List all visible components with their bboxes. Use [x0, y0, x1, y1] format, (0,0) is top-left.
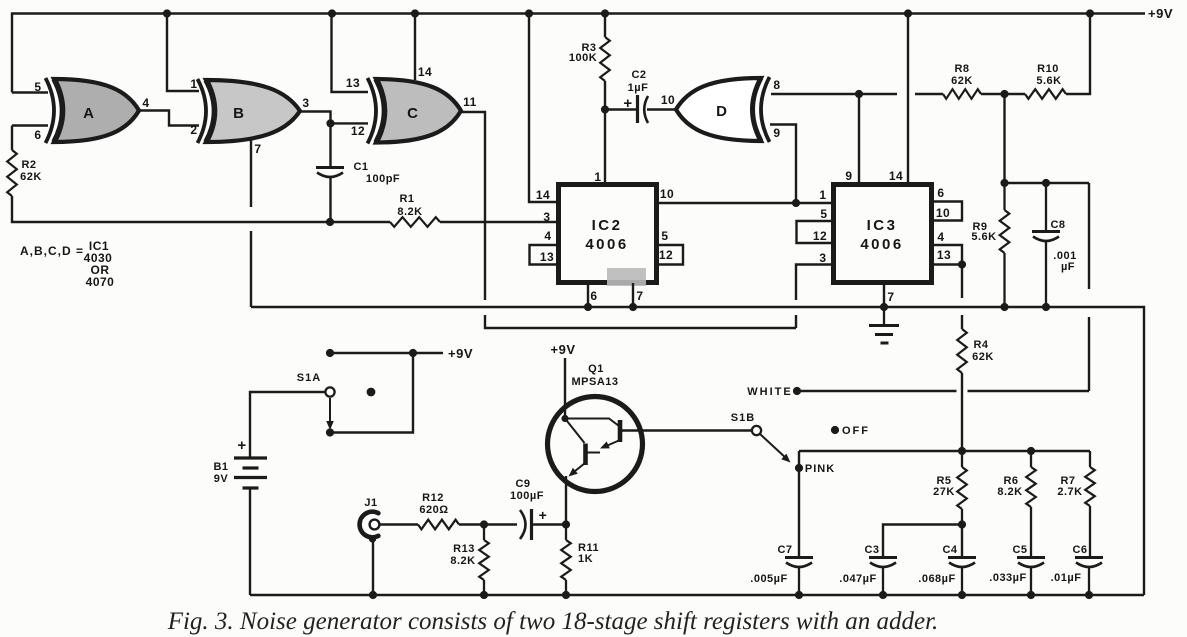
resistor R7 [1089, 451, 1091, 467]
wire R3 to node [604, 81, 606, 110]
xor gate B [206, 80, 300, 142]
svg-text:R1: R1 [399, 193, 414, 205]
xor gate A [54, 79, 139, 142]
svg-text:IC3: IC3 [867, 217, 898, 234]
svg-text:13: 13 [540, 250, 554, 264]
svg-text:62K: 62K [951, 75, 973, 87]
svg-text:6: 6 [590, 289, 597, 303]
svg-text:R13: R13 [453, 543, 475, 555]
node C8 top [1042, 179, 1050, 187]
svg-text:.033µF: .033µF [989, 572, 1026, 584]
wire white node horizontal [1005, 182, 1090, 184]
svg-text:MPSA13: MPSA13 [571, 376, 618, 388]
wire C2 to gate D [647, 108, 676, 110]
svg-text:620Ω: 620Ω [419, 504, 448, 516]
node S1A lower contact [326, 428, 334, 436]
junction top bus [328, 9, 336, 17]
svg-text:9V: 9V [214, 473, 229, 485]
wire R2 to R1 line [12, 196, 390, 222]
node IC3 pin 7 gnd [880, 303, 888, 311]
node IC2pin10 IC3pin1 [792, 199, 800, 207]
svg-text:14: 14 [889, 169, 903, 183]
svg-text:.005µF: .005µF [750, 573, 787, 585]
svg-text:IC2: IC2 [592, 217, 623, 234]
svg-text:5.6K: 5.6K [1036, 75, 1061, 87]
node R11 top [562, 520, 570, 528]
wire gate C output 11 [461, 112, 485, 300]
svg-text:10: 10 [661, 93, 675, 107]
wire R4 upper [961, 265, 963, 299]
svg-text:27K: 27K [933, 486, 955, 498]
wire battery to S1A [250, 392, 325, 458]
svg-text:4: 4 [142, 96, 149, 110]
capacitor C6 [1075, 556, 1103, 559]
svg-text:14: 14 [418, 65, 432, 79]
wire pink bus [799, 450, 1090, 452]
wire IC3 pin 14 [907, 14, 909, 185]
svg-text:C2: C2 [631, 69, 646, 81]
wire C3 link [883, 525, 962, 558]
svg-text:3: 3 [543, 210, 550, 224]
svg-text:.068µF: .068µF [918, 573, 955, 585]
node R13 top [480, 520, 488, 528]
resistor R10 [1025, 89, 1066, 99]
svg-text:8.2K: 8.2K [450, 555, 475, 567]
svg-text:R10: R10 [1037, 63, 1059, 75]
wire white node right drop lower [1088, 317, 1090, 391]
svg-text:4070: 4070 [86, 275, 115, 289]
junction top bus [601, 9, 609, 17]
transistor Q1b base lead [587, 452, 600, 454]
svg-text:9: 9 [773, 126, 780, 140]
svg-text:100pF: 100pF [366, 173, 400, 185]
svg-text:3: 3 [302, 96, 309, 110]
svg-text:4: 4 [544, 229, 551, 243]
node R9 gnd [1000, 303, 1008, 311]
svg-text:100µF: 100µF [510, 490, 544, 502]
svg-text:12: 12 [659, 248, 673, 262]
svg-text:5: 5 [34, 80, 41, 94]
node gate B output junction [326, 119, 334, 127]
svg-text:B1: B1 [213, 461, 228, 473]
node R3 C2 IC2pin1 [601, 105, 609, 113]
node R5 C4 junction [958, 520, 966, 528]
resistor R12 [418, 520, 459, 530]
wire C9 to node [533, 523, 566, 525]
svg-text:Fig. 3. Noise generator consis: Fig. 3. Noise generator consists of two … [167, 608, 939, 635]
resistor R3 [600, 37, 610, 81]
junction top bus [904, 9, 912, 17]
svg-text:12: 12 [813, 229, 827, 243]
wire gate D pin 9 [770, 125, 796, 204]
node S1A +9V left [326, 349, 334, 357]
wire white node drop [1003, 94, 1005, 183]
wire IC2 pin 14 [529, 14, 558, 203]
svg-text:B: B [233, 105, 245, 122]
node WHITE terminal [793, 387, 801, 395]
svg-text:S1B: S1B [731, 412, 755, 424]
capacitor C8 [1045, 183, 1047, 231]
wire C1 drop [329, 123, 331, 167]
resistor R8 [943, 89, 981, 99]
transistor Q1b emitter [572, 463, 585, 474]
svg-text:+: + [539, 507, 548, 523]
node IC3 pin13 R4 [958, 260, 966, 268]
junction bottom bus [795, 591, 803, 599]
svg-text:C1: C1 [353, 161, 368, 173]
wire IC2 pins 4-13 loop [530, 245, 559, 265]
wire node to C2 [605, 108, 636, 110]
wire gate C input 13 [332, 14, 369, 93]
wire IC3 pin 7 [883, 283, 885, 307]
switch S1A pole [325, 387, 334, 396]
wire C1 to R1 line [329, 178, 331, 222]
svg-text:A: A [83, 105, 95, 122]
wire gate B input 1 [167, 14, 199, 92]
wire battery to bus [249, 488, 251, 595]
svg-text:6: 6 [34, 128, 41, 142]
wire J1 to bus [372, 540, 374, 595]
svg-text:A,B,C,D =: A,B,C,D = [20, 244, 84, 258]
junction bottom bus [879, 591, 887, 599]
svg-text:C5: C5 [1012, 544, 1027, 556]
svg-text:R8: R8 [954, 63, 969, 75]
transistor Q1b collector lead [565, 419, 585, 444]
wire gate B output 3 [300, 112, 368, 124]
wire Q1 base to S1B [622, 429, 752, 431]
wire R10 to +9V [1066, 14, 1090, 95]
wire IC2 pin 10 to IC3 pin 1 [657, 202, 833, 204]
resistor R2 [7, 150, 17, 196]
svg-text:100K: 100K [569, 52, 597, 64]
node PINK terminal [795, 464, 803, 472]
wire WHITE line [797, 390, 1089, 392]
svg-text:S1A: S1A [297, 372, 321, 384]
junction bottom bus [1027, 591, 1035, 599]
wire Q1 emitter [565, 476, 567, 525]
wire node to C9 [484, 523, 517, 525]
svg-text:14: 14 [536, 188, 550, 202]
wire IC3 pin 3 feed [796, 265, 833, 301]
svg-text:1µF: 1µF [628, 82, 649, 94]
switch S1B wiper [760, 434, 787, 459]
wire bottom bus [250, 594, 1144, 596]
resistor R9 [1003, 183, 1005, 210]
node S1A +9V junction [409, 349, 417, 357]
svg-text:13: 13 [346, 76, 360, 90]
svg-text:4006: 4006 [585, 236, 628, 253]
node R5 top [958, 447, 966, 455]
svg-text:4: 4 [937, 230, 944, 244]
switch S1A wiper [329, 398, 331, 423]
switch S1B pole [752, 426, 761, 435]
wire S1A contact to +9V [330, 353, 413, 433]
svg-text:+9V: +9V [1148, 6, 1173, 21]
wire gate D output 8 [771, 93, 943, 95]
svg-text:7: 7 [887, 290, 894, 304]
wire IC3 pins 6-10 loop [932, 202, 962, 221]
svg-text:62K: 62K [20, 171, 42, 183]
capacitor C9 [520, 510, 526, 539]
resistor R13 [483, 525, 485, 541]
transistor Q1 collector node [561, 415, 568, 422]
svg-text:R4: R4 [973, 339, 988, 351]
svg-text:C3: C3 [864, 544, 879, 556]
battery B1 [234, 456, 267, 459]
wire IC2 pins 5-12 loop [657, 245, 683, 265]
wire R3 top [604, 14, 606, 38]
svg-text:1: 1 [190, 77, 197, 91]
svg-text:+9V: +9V [551, 342, 576, 357]
junction bottom bus [562, 591, 570, 599]
svg-text:D: D [716, 103, 728, 120]
connector J1 [360, 512, 379, 538]
junction bottom bus [480, 591, 488, 599]
svg-text:+: + [237, 437, 246, 454]
capacitor C7 [785, 556, 813, 559]
node pin8 pin9-IC3 junction [855, 90, 863, 98]
wire ground bus [251, 307, 1144, 595]
resistor R11 [565, 525, 567, 541]
svg-text:C7: C7 [777, 544, 792, 556]
wire C4 link [961, 525, 963, 558]
resistor R5 [961, 451, 963, 467]
svg-text:µF: µF [1061, 261, 1075, 273]
junction bottom bus [958, 591, 966, 599]
wire R8 to R10 [981, 93, 1025, 95]
svg-text:11: 11 [463, 95, 477, 109]
xor gate C [376, 79, 461, 143]
op IC2 box [559, 185, 657, 283]
resistor R6 [1030, 451, 1032, 467]
capacitor C3 [869, 556, 897, 559]
wire white node right drop upper [1088, 183, 1090, 289]
svg-text:C8: C8 [1050, 219, 1065, 231]
svg-text:C: C [407, 105, 419, 122]
wire IC3 pins 5-12 loop [797, 221, 834, 243]
wire gate B pin 7 lower [250, 231, 252, 307]
transistor Q1a emitter [604, 440, 620, 447]
svg-text:12: 12 [351, 124, 365, 138]
resistor R1 [390, 217, 440, 227]
wire R12 to node [459, 523, 484, 525]
svg-text:8.2K: 8.2K [997, 486, 1022, 498]
wire gate A input 6 [12, 126, 48, 151]
node C1 bottom junction [326, 218, 334, 226]
svg-text:6: 6 [937, 186, 944, 200]
wire IC3 pin 9 [858, 94, 860, 184]
wire pink drop to C7 [798, 451, 800, 556]
xor gate D [676, 78, 761, 141]
svg-text:7: 7 [254, 142, 261, 156]
junction top bus [1086, 9, 1094, 17]
svg-text:5: 5 [661, 229, 668, 243]
wire IC3 pins 4-13 loop [932, 245, 962, 265]
svg-text:8.2K: 8.2K [397, 206, 422, 218]
svg-text:13: 13 [937, 248, 951, 262]
svg-text:1: 1 [819, 188, 826, 202]
svg-text:J1: J1 [364, 497, 377, 509]
capacitor C2 [636, 95, 639, 123]
node C8 gnd [1042, 303, 1050, 311]
capacitor C1 [316, 166, 344, 169]
svg-text:10: 10 [660, 187, 674, 201]
svg-text:C6: C6 [1072, 544, 1087, 556]
wire Q1 collector [564, 358, 566, 419]
svg-text:2.7K: 2.7K [1057, 486, 1082, 498]
transistor Q1 circle [548, 397, 643, 492]
junction bottom bus [369, 591, 377, 599]
wire adder bracket [485, 315, 796, 328]
svg-text:+: + [623, 95, 632, 112]
junction top bus [411, 9, 419, 17]
wire gate A input 5 [12, 91, 48, 93]
wire J1 to R12 [380, 523, 419, 525]
switch S1A off contact [367, 388, 376, 397]
svg-text:OFF: OFF [842, 425, 870, 437]
svg-text:+9V: +9V [448, 346, 473, 361]
svg-text:8: 8 [773, 78, 780, 92]
wire S1A +9V line [330, 352, 443, 354]
node white bus left [1000, 179, 1008, 187]
wire IC2 pin 7 [632, 283, 634, 307]
node IC2 pin 7 gnd [629, 303, 637, 311]
IC2 scan smudge [607, 268, 646, 286]
svg-text:3: 3 [819, 251, 826, 265]
svg-text:1: 1 [594, 170, 601, 184]
svg-text:9: 9 [845, 169, 852, 183]
wire R1 to IC2 pin 3 [440, 221, 558, 223]
svg-text:5: 5 [820, 207, 827, 221]
svg-text:.047µF: .047µF [839, 573, 876, 585]
svg-text:C4: C4 [942, 544, 957, 556]
op IC3 box [834, 185, 932, 283]
svg-text:C9: C9 [515, 478, 530, 490]
junction top bus [525, 9, 533, 17]
svg-text:.01µF: .01µF [1051, 572, 1082, 584]
junction bottom bus [1085, 591, 1093, 599]
wire gate A output 4 [139, 111, 199, 126]
node R8 R10 junction [1000, 90, 1008, 98]
transistor Q1a collector lead [565, 419, 619, 427]
svg-text:R2: R2 [21, 159, 36, 171]
svg-text:Q1: Q1 [588, 363, 604, 375]
svg-text:5.6K: 5.6K [971, 231, 996, 243]
transistor Q1a base bar [618, 420, 623, 442]
wire +9V top bus [12, 14, 1145, 93]
transistor Q1b base bar [583, 444, 588, 466]
svg-text:1K: 1K [578, 553, 593, 565]
svg-text:2: 2 [190, 123, 197, 137]
junction top bus [163, 9, 171, 17]
svg-text:WHITE: WHITE [747, 386, 792, 398]
svg-text:62K: 62K [972, 351, 994, 363]
node R6 top [1027, 447, 1035, 455]
capacitor C5 [1017, 556, 1045, 559]
svg-text:7: 7 [636, 289, 643, 303]
svg-text:PINK: PINK [805, 463, 835, 475]
wire gate C pin 14 [414, 14, 416, 81]
ground [883, 307, 885, 324]
wire R4 chain [961, 315, 963, 329]
node IC2 pin 6 gnd [584, 303, 592, 311]
node OFF terminal [831, 426, 839, 434]
wire IC2 pin 6 [587, 283, 589, 307]
wire gate B pin 7 upper [250, 138, 252, 207]
svg-text:4006: 4006 [860, 236, 903, 253]
capacitor C4 [948, 556, 976, 559]
svg-text:R12: R12 [422, 492, 444, 504]
svg-text:10: 10 [936, 206, 950, 220]
wire IC2 pin 1 [604, 110, 606, 185]
